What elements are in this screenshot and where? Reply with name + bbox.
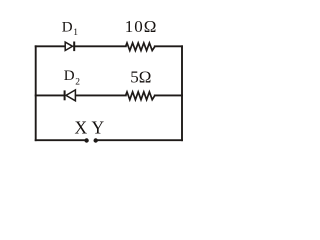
wire mid-left to D2 — [36, 94, 65, 96]
diode D1 — [65, 42, 74, 52]
svg-text:D: D — [64, 68, 75, 84]
wire 10ohm resistor to top-right — [155, 45, 182, 47]
D1 cathode bar — [73, 42, 75, 52]
resistor 10ohm zigzag — [126, 43, 155, 51]
svg-text:X: X — [75, 117, 88, 137]
wire left vertical — [35, 46, 37, 140]
D2 anode triangle — [66, 90, 75, 101]
wire right vertical — [181, 46, 183, 140]
svg-text:5Ω: 5Ω — [130, 67, 151, 86]
svg-text:Y: Y — [92, 117, 105, 137]
svg-text:D: D — [62, 20, 73, 36]
wire bottom-left to terminal X — [36, 139, 87, 141]
wire 5ohm resistor to mid-right — [155, 94, 182, 96]
wires: outer loop and branch conductors — [36, 46, 182, 140]
svg-text:2: 2 — [75, 78, 80, 88]
terminal dot X — [84, 138, 88, 142]
wire terminal Y to bottom-right — [96, 139, 182, 141]
D1 anode triangle — [65, 42, 72, 50]
wire D1 to 10ohm resistor — [74, 45, 126, 47]
wire top-left to D1 — [36, 45, 65, 47]
resistor 5ohm zigzag — [126, 92, 155, 100]
diode D2 — [65, 90, 76, 101]
wire D2 to 5ohm resistor — [75, 94, 125, 96]
D2 cathode bar — [64, 90, 66, 100]
terminal dot Y — [94, 138, 98, 142]
svg-text:10Ω: 10Ω — [125, 17, 158, 36]
svg-text:1: 1 — [73, 28, 78, 38]
